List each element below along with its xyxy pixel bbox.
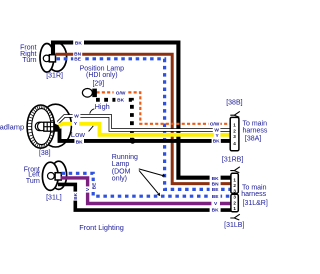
wire BK position lamp (dashed) down to junction <box>96 100 132 140</box>
headlamp wire exit wedge <box>54 123 60 132</box>
svg-text:harness: harness <box>241 191 266 198</box>
headlamp bulb <box>35 122 44 131</box>
svg-text:(HDI only): (HDI only) <box>86 72 118 79</box>
label BK on right-turn wire <box>73 39 84 46</box>
label BK at [38B] <box>212 138 221 143</box>
label V at [31LB] <box>211 201 220 206</box>
label BK at [31LB] <box>210 207 221 212</box>
svg-text:Lamp: Lamp <box>112 161 130 168</box>
svg-text:3: 3 <box>233 134 236 139</box>
connector [31LB] <box>231 194 238 211</box>
svg-text:BE: BE <box>212 194 219 200</box>
headlamp [38] <box>27 104 71 148</box>
svg-text:BK: BK <box>117 98 124 104</box>
svg-text:Front Lighting: Front Lighting <box>79 223 124 232</box>
headlamp connector block <box>44 122 54 131</box>
svg-text:[31LB]: [31LB] <box>224 222 244 229</box>
svg-text:[31L&R]: [31L&R] <box>243 200 268 207</box>
headlamp rim hatching <box>28 105 55 148</box>
svg-text:4: 4 <box>233 141 236 146</box>
svg-text:3: 3 <box>233 188 236 193</box>
label Y on headlamp wire <box>72 120 79 126</box>
junction dot BK headlamp / position lamp <box>130 138 136 144</box>
svg-text:3: 3 <box>233 195 236 200</box>
label BK on position lamp wire <box>115 97 126 103</box>
arrow to BE right-turn vertical <box>139 169 163 176</box>
svg-text:1: 1 <box>233 206 236 211</box>
svg-text:only): only) <box>112 175 127 182</box>
svg-text:[31RB]: [31RB] <box>222 157 243 164</box>
svg-text:BK: BK <box>213 138 220 144</box>
svg-text:Headlamp: Headlamp <box>0 123 24 132</box>
svg-text:BK: BK <box>212 176 219 182</box>
svg-text:W: W <box>74 113 79 119</box>
svg-text:[31L]: [31L] <box>46 195 62 202</box>
svg-text:(DOM: (DOM <box>112 168 131 175</box>
wire BK left-turn to [31LB] pin 1 <box>58 184 231 210</box>
connector symbol [31RB] <box>230 167 240 173</box>
wire Y headlamp low beam to [38B] pin 3 <box>59 124 231 135</box>
wire BE left-turn (dashed) to [31LB] pin 3 <box>62 173 231 196</box>
label W on headlamp wire <box>73 112 81 118</box>
label Y at [38B] <box>214 132 221 137</box>
wire BK headlamp ground to [38B] pin 4 <box>60 129 231 141</box>
connector symbol [31LB] <box>230 214 240 220</box>
svg-text:BE: BE <box>74 56 81 62</box>
svg-text:High: High <box>95 102 110 111</box>
svg-text:O/W: O/W <box>210 122 220 128</box>
svg-text:BN: BN <box>212 182 219 188</box>
label BK on headlamp ground wire <box>74 139 84 144</box>
label BN on right-turn wire <box>73 51 82 56</box>
label BK rotated on left-turn vertical <box>72 192 79 201</box>
svg-text:BE: BE <box>212 187 219 193</box>
wire O/W position lamp (dashed) to [38B] pin 1 <box>97 92 231 123</box>
svg-text:Turn: Turn <box>22 57 36 64</box>
label BN at [31RB] <box>210 181 221 186</box>
label W at [38B] <box>213 127 221 132</box>
svg-text:[38]: [38] <box>39 150 51 157</box>
svg-text:1: 1 <box>233 122 236 127</box>
wire BK right-turn: lamp to [31RB] pin 1 <box>53 43 231 178</box>
svg-text:[38A]: [38A] <box>245 135 261 142</box>
label BE at [31LB] <box>210 194 221 199</box>
svg-text:2: 2 <box>233 201 236 206</box>
wire BE right-turn (dashed): lamp to [31RB] pin 3 <box>57 59 231 190</box>
lamp Front Left Turn [31L] <box>42 161 66 190</box>
label BE on right-turn wire <box>73 56 82 61</box>
svg-text:2: 2 <box>233 128 236 133</box>
svg-text:1: 1 <box>233 177 236 182</box>
svg-text:BK: BK <box>76 140 83 146</box>
svg-text:O/W: O/W <box>116 90 126 96</box>
wire BN right-turn: lamp to [31RB] pin 2 <box>55 54 231 183</box>
svg-text:[31R]: [31R] <box>46 72 63 79</box>
svg-text:Running: Running <box>112 154 138 161</box>
svg-text:Turn: Turn <box>26 178 40 185</box>
wire W headlamp high beam to [38B] pin 2 (outlined white wire) <box>58 116 231 130</box>
label BE at [31RB] <box>210 187 221 192</box>
svg-text:2: 2 <box>233 183 236 188</box>
svg-text:BK: BK <box>212 207 219 213</box>
lamp Front Right Turn [31R] <box>40 43 67 72</box>
svg-text:BE: BE <box>91 182 97 189</box>
label O/W at [38B] <box>209 121 221 127</box>
svg-text:BK: BK <box>75 41 82 47</box>
label BE rotated on left-turn vertical <box>90 181 97 190</box>
svg-text:[38B]: [38B] <box>226 100 242 107</box>
label V rotated on left-turn vertical <box>84 186 90 192</box>
arrow to BE left-turn horizontal <box>139 170 158 193</box>
connector symbol [38B] <box>230 111 240 117</box>
svg-text:harness: harness <box>243 127 268 134</box>
label BK at [31RB] <box>210 175 221 181</box>
position lamp bulb [29] <box>82 89 92 98</box>
svg-text:BK: BK <box>73 192 79 199</box>
svg-text:[29]: [29] <box>92 81 104 88</box>
wire V left-turn to [31LB] pin 2 <box>61 178 231 204</box>
svg-text:Low: Low <box>71 130 86 139</box>
label O/W on position lamp wire <box>114 89 128 95</box>
